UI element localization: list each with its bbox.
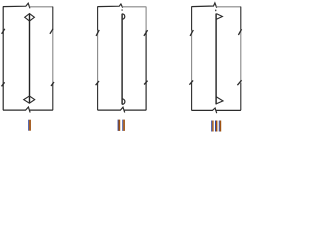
element: bottom half-disc S2 — [122, 99, 125, 105]
wire: top edge left segment with current-arrow jog — [98, 4, 123, 8]
arrow: left edge upper slash — [96, 30, 99, 36]
element: top half-disc S1 — [122, 14, 125, 19]
wire: right edge upper dark segment — [240, 7, 242, 30]
wire: central branch stub — [121, 9, 123, 10]
wire: right edge lower dark segment — [145, 31, 147, 111]
wire: top edge right segment — [122, 6, 146, 8]
wire: top edge left segment with current-arrow jog — [192, 3, 217, 8]
wire: central branch — [29, 14, 31, 103]
wire: left edge middle gray segment — [97, 31, 99, 83]
wire: central branch — [121, 14, 123, 105]
wire: bottom edge left segment with current-arrow jog — [3, 107, 30, 113]
wire: top edge right segment — [216, 6, 241, 8]
arrow: left edge upper slash — [2, 29, 5, 34]
arrow: right edge upper slash — [238, 29, 241, 35]
wire: bottom edge right segment — [124, 109, 146, 111]
wire: bottom edge right segment — [216, 109, 241, 111]
wire: right edge upper gray segment — [145, 7, 147, 31]
arrow: right edge upper slash — [144, 30, 148, 36]
element: bottom flag T2 — [216, 97, 223, 104]
wire: top edge right segment — [30, 6, 53, 8]
wire: top edge left segment with current-arrow jog — [3, 3, 30, 8]
wire: central branch stub — [215, 10, 217, 12]
arrow: left edge upper slash — [190, 30, 193, 36]
wire: left edge lower dark segment — [191, 83, 193, 111]
wire: bottom edge left segment with current-arrow jog — [192, 108, 217, 113]
label I — [28, 120, 31, 131]
element: bottom diamond D2 — [24, 96, 35, 103]
arrow: left edge lower slash — [189, 80, 193, 84]
wire: left edge upper dark segment — [191, 6, 193, 30]
arrow: right edge upper slash — [50, 29, 53, 34]
wire: left edge middle gray segment — [191, 31, 193, 83]
wire: right edge upper dark segment — [52, 7, 54, 30]
wire: right edge middle gray segment — [52, 30, 54, 83]
arrow: left edge lower slash — [96, 81, 99, 85]
wire: right edge middle gray segment — [240, 30, 242, 83]
arrow: right edge lower slash — [51, 82, 54, 86]
arrow: left edge lower slash — [2, 82, 5, 86]
element: top flag T1 — [216, 14, 222, 20]
wire: right edge lower dark segment — [240, 83, 242, 110]
element: top diamond D1 — [25, 14, 35, 21]
arrow: right edge lower slash — [144, 81, 148, 85]
wire: central branch — [215, 14, 217, 105]
wire: left edge — [2, 6, 4, 110]
label II — [118, 120, 125, 131]
wire: bottom edge left segment with current-arrow jog — [98, 107, 125, 112]
wire: right edge lower dark segment — [52, 83, 54, 110]
wire: left edge upper dark segment — [97, 6, 99, 30]
arrow: right edge lower slash — [237, 80, 241, 85]
wire: bottom edge right segment — [30, 109, 53, 111]
label III — [211, 121, 221, 132]
wire: left edge lower dark segment — [97, 83, 99, 110]
